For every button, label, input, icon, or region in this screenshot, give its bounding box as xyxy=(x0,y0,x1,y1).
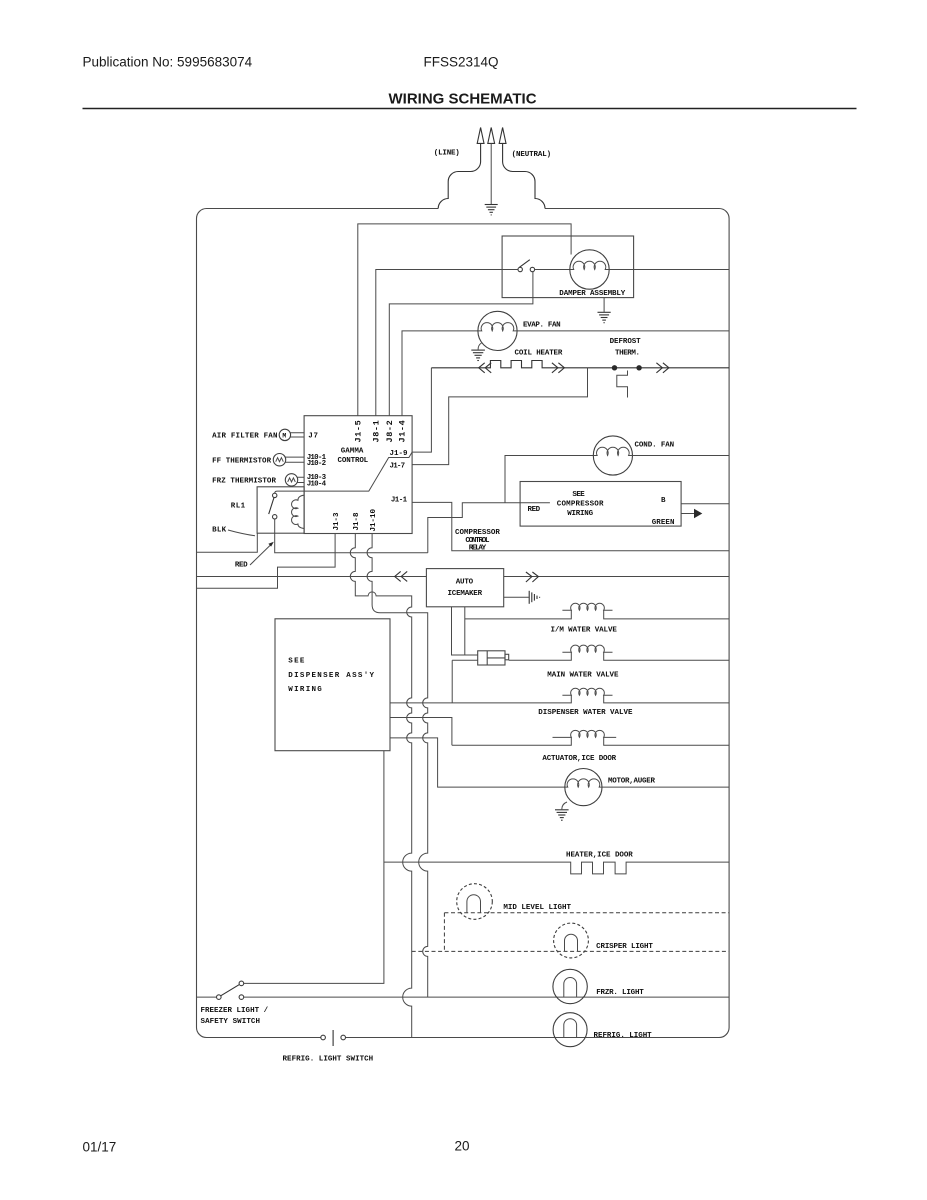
compressor wiring box xyxy=(520,482,681,527)
connector chevrons << on heater rung xyxy=(479,363,492,373)
svg-text:WIRING: WIRING xyxy=(288,686,323,694)
svg-text:RL1: RL1 xyxy=(231,503,246,511)
svg-text:I/M WATER VALVE: I/M WATER VALVE xyxy=(551,627,618,635)
svg-text:J1-3: J1-3 xyxy=(333,512,341,531)
svg-text:REFRIG. LIGHT SWITCH: REFRIG. LIGHT SWITCH xyxy=(283,1056,374,1064)
svg-text:COIL HEATER: COIL HEATER xyxy=(515,350,563,358)
main water valve coil xyxy=(562,645,612,652)
safety switch lower contact xyxy=(239,995,244,1000)
defrost thermostat sensing step symbol xyxy=(617,371,628,398)
motor auger ground stem xyxy=(562,802,567,809)
connector chevrons >> icemaker xyxy=(526,572,539,582)
icemaker ground wire xyxy=(504,596,529,598)
wire switch to damper coil xyxy=(535,269,570,271)
refrig light filament xyxy=(564,1019,577,1038)
icemaker ground symbol (rotated) xyxy=(529,591,539,604)
evap fan circle xyxy=(478,311,517,350)
svg-text:GREEN: GREEN xyxy=(652,519,675,527)
svg-text:WIRING SCHEMATIC: WIRING SCHEMATIC xyxy=(389,91,537,108)
J1-10 wire down from gamma (jogs over buses) xyxy=(367,534,428,998)
neutral prong lead-in wire xyxy=(503,143,545,208)
damper ground symbol xyxy=(598,312,611,322)
FRZ thermistor wires xyxy=(298,477,305,482)
main water valve rung xyxy=(452,652,729,660)
frzr light circle xyxy=(553,969,587,1003)
RED callout arrow xyxy=(250,545,271,566)
svg-text:J1-10: J1-10 xyxy=(370,508,378,531)
FF thermistor wires xyxy=(286,457,305,462)
svg-text:DISPENSER WATER VALVE: DISPENSER WATER VALVE xyxy=(538,709,633,717)
evap fan wire to right bus xyxy=(517,330,729,332)
BLK wire from relay box to left bus xyxy=(197,533,258,552)
connector chevrons >> right of defrost xyxy=(656,363,669,373)
svg-text:(NEUTRAL): (NEUTRAL) xyxy=(512,151,551,159)
cond fan circle xyxy=(593,436,632,475)
refrig light switch right contact xyxy=(341,1035,346,1040)
header rule xyxy=(83,108,857,110)
svg-text:J10-2: J10-2 xyxy=(307,460,327,468)
wire J1-5 to damper motor xyxy=(358,224,571,416)
wire J1-1 to neutral bus xyxy=(412,502,729,550)
icemaker feed rung from left bus xyxy=(197,576,427,578)
svg-text:FF THERMISTOR: FF THERMISTOR xyxy=(212,457,271,465)
svg-text:SEE: SEE xyxy=(572,491,585,499)
crisper light filament xyxy=(565,934,578,951)
svg-text:FRZ THERMISTOR: FRZ THERMISTOR xyxy=(212,477,276,485)
svg-text:MAIN WATER VALVE: MAIN WATER VALVE xyxy=(547,671,619,679)
ground wire from middle prong xyxy=(490,143,492,204)
water tube heater component xyxy=(478,651,509,665)
wire J1-7 pin to defrost branch xyxy=(412,368,587,465)
mid level light rung (dashed) xyxy=(444,913,729,952)
auto icemaker box xyxy=(426,569,503,607)
mid level light circle xyxy=(457,884,493,920)
svg-text:J1-5: J1-5 xyxy=(354,420,364,443)
damper switch right contact xyxy=(530,267,534,271)
icemaker bottom drop wires to heater component xyxy=(452,607,478,655)
svg-text:M: M xyxy=(282,433,286,440)
crisper light circle xyxy=(554,923,589,958)
refrig light switch actuator bar xyxy=(332,1030,334,1046)
RED feed wire from relay bus to compressor xyxy=(428,503,550,553)
defrost thermostat right contact xyxy=(636,365,641,370)
wire J8-1 to damper switch xyxy=(376,270,518,416)
wire J8-2 from switch contact xyxy=(389,272,533,416)
line prong lead-in wire xyxy=(438,143,480,208)
freezer safety switch rung from left bus xyxy=(197,996,217,998)
connector chevrons >> on heater rung xyxy=(552,363,565,373)
svg-text:J1-8: J1-8 xyxy=(353,512,361,531)
svg-text:B: B xyxy=(661,497,666,505)
ground symbol below plug xyxy=(485,205,498,215)
svg-text:RED: RED xyxy=(528,506,541,514)
svg-text:20: 20 xyxy=(455,1139,470,1154)
svg-text:SEE: SEE xyxy=(288,657,305,665)
damper switch blade xyxy=(519,260,529,268)
relay coil RL1 xyxy=(292,495,305,528)
svg-text:FREEZER LIGHT /: FREEZER LIGHT / xyxy=(201,1007,269,1015)
svg-text:ACTUATOR,ICE DOOR: ACTUATOR,ICE DOOR xyxy=(542,755,616,763)
svg-text:J1-9: J1-9 xyxy=(390,450,408,458)
svg-text:DEFROST: DEFROST xyxy=(610,338,642,346)
I/M water valve coil xyxy=(562,603,612,610)
svg-text:DAMPER ASSEMBLY: DAMPER ASSEMBLY xyxy=(559,290,625,298)
FRZ thermistor symbol xyxy=(285,474,297,486)
damper neutral wire to right bus xyxy=(609,269,729,271)
dispenser box bottom drop wire to safety switch xyxy=(244,751,384,984)
svg-text:FRZR. LIGHT: FRZR. LIGHT xyxy=(596,989,644,997)
refrig light circle xyxy=(553,1013,587,1047)
evap fan ground symbol xyxy=(471,350,485,360)
svg-text:DISPENSER ASS'Y: DISPENSER ASS'Y xyxy=(288,672,375,680)
J1-8 wire down from gamma (jogs over buses) xyxy=(350,534,411,1038)
actuator ice door rung xyxy=(452,737,729,745)
motor auger coil loops xyxy=(565,779,602,787)
icemaker rung to right bus xyxy=(504,576,729,578)
svg-text:J1-4: J1-4 xyxy=(398,420,408,443)
svg-text:01/17: 01/17 xyxy=(83,1140,117,1155)
svg-text:J8-1: J8-1 xyxy=(372,420,382,443)
cond fan coil loops xyxy=(593,447,632,455)
svg-text:AIR FILTER FAN: AIR FILTER FAN xyxy=(212,433,277,441)
feed wire main valve to dispenser valve rung xyxy=(451,660,453,703)
BLK callout line xyxy=(228,530,255,536)
air filter fan motor circle xyxy=(279,429,290,440)
motor auger ground symbol xyxy=(555,810,569,820)
damper assembly box xyxy=(502,236,633,298)
green ground arrow xyxy=(694,509,702,519)
svg-text:RELAY: RELAY xyxy=(469,545,487,553)
crisper light rung (dashed) xyxy=(412,950,729,952)
damper switch left contact xyxy=(518,267,522,271)
svg-text:AUTO: AUTO xyxy=(456,579,474,587)
motor auger wire to right bus xyxy=(602,786,729,788)
svg-text:COMPRESSOR: COMPRESSOR xyxy=(557,500,604,508)
frzr light filament xyxy=(564,978,577,998)
air filter fan wires to J7 xyxy=(291,433,305,437)
frzr light rung xyxy=(244,996,729,998)
relay switch lower contact xyxy=(273,515,277,519)
svg-text:THERM.: THERM. xyxy=(615,349,640,357)
svg-text:ICEMAKER: ICEMAKER xyxy=(448,590,483,598)
compressor B wire to right bus xyxy=(681,503,729,505)
svg-text:EVAP. FAN: EVAP. FAN xyxy=(523,322,561,330)
actuator ice door coil xyxy=(553,730,617,737)
wire J1-3 to left bus xyxy=(197,534,336,589)
damper ground stem xyxy=(603,298,605,312)
defrost thermostat left contact xyxy=(612,365,617,370)
RED wire from relay lower contact to compressor bus xyxy=(275,519,428,553)
svg-text:MID LEVEL LIGHT: MID LEVEL LIGHT xyxy=(503,904,571,912)
main schematic border (left=hot bus, right=neutral bus) xyxy=(197,209,439,1038)
coil heater rung with connectors (J1-9 net) xyxy=(431,361,729,368)
evap fan coil loops xyxy=(478,323,517,331)
mid level light filament xyxy=(467,895,481,913)
svg-text:J1-7: J1-7 xyxy=(390,463,406,471)
svg-text:COND. FAN: COND. FAN xyxy=(635,442,675,450)
dispenser water valve coil xyxy=(562,688,612,695)
relay internal wire from upper contact to J1-9 xyxy=(275,452,412,493)
svg-text:J8-2: J8-2 xyxy=(385,420,395,443)
heater ice door rung xyxy=(384,862,729,874)
relay RL1 box xyxy=(257,487,304,533)
svg-text:COMPRESSOR: COMPRESSOR xyxy=(455,529,500,537)
motor auger feed wire from dispenser box xyxy=(390,738,565,787)
plug prong arrow (ground middle) xyxy=(488,128,495,144)
svg-text:J1-1: J1-1 xyxy=(391,496,408,504)
wire J1-9 pin to heater rung xyxy=(412,368,431,452)
compressor GREEN ground wire xyxy=(681,513,694,515)
gamma control box xyxy=(304,416,412,534)
svg-text:BLK: BLK xyxy=(212,527,226,535)
motor auger circle xyxy=(565,769,602,806)
svg-text:(LINE): (LINE) xyxy=(434,149,460,157)
svg-text:MOTOR,AUGER: MOTOR,AUGER xyxy=(608,778,655,786)
FF thermistor symbol xyxy=(273,454,285,466)
svg-text:GAMMA: GAMMA xyxy=(341,448,364,456)
svg-text:J7: J7 xyxy=(308,433,318,441)
dispenser assembly box xyxy=(275,619,390,751)
actuator feed wire from dispenser box xyxy=(390,718,452,746)
I/M water valve rung xyxy=(465,610,729,619)
svg-text:HEATER,ICE DOOR: HEATER,ICE DOOR xyxy=(566,852,633,860)
svg-text:REFRIG. LIGHT: REFRIG. LIGHT xyxy=(594,1032,653,1040)
svg-text:CONTROL: CONTROL xyxy=(465,537,490,545)
evap fan ground stem xyxy=(478,343,481,350)
safety switch blade xyxy=(221,985,239,996)
damper motor coil loops xyxy=(570,261,609,269)
safety switch upper contact xyxy=(239,981,244,986)
wire J1-4 to evap fan xyxy=(402,331,478,416)
dispenser water valve rung xyxy=(390,695,729,703)
plug prong arrow (line) xyxy=(477,128,484,144)
svg-text:SAFETY SWITCH: SAFETY SWITCH xyxy=(201,1018,261,1026)
svg-text:WIRING: WIRING xyxy=(567,510,593,518)
relay switch blade xyxy=(269,498,274,515)
cond fan wire to right bus xyxy=(633,455,730,457)
plug prong arrow (neutral) xyxy=(499,128,506,144)
svg-text:CONTROL: CONTROL xyxy=(338,457,369,465)
svg-text:Publication No: 5995683074: Publication No: 5995683074 xyxy=(83,55,253,70)
svg-text:FFSS2314Q: FFSS2314Q xyxy=(424,55,499,70)
svg-text:J10-4: J10-4 xyxy=(307,481,327,489)
svg-text:RED: RED xyxy=(235,562,248,570)
cond fan drop wire xyxy=(505,456,593,503)
damper motor circle xyxy=(570,250,609,289)
relay switch upper contact xyxy=(273,493,277,497)
connector chevrons << icemaker xyxy=(395,571,408,581)
safety switch left contact xyxy=(217,995,222,1000)
svg-text:CRISPER LIGHT: CRISPER LIGHT xyxy=(596,943,653,951)
refrig light switch left contact xyxy=(321,1035,326,1040)
